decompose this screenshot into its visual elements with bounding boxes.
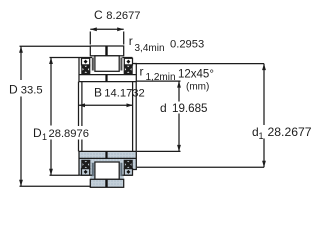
- inner ring lubrication slot: [105, 75, 107, 82]
- bottom outer ring band: [90, 179, 123, 187]
- B arrow right: [127, 103, 134, 107]
- svg-text:r: r: [140, 65, 144, 79]
- svg-text:(mm): (mm): [186, 82, 209, 93]
- right diamond: [126, 60, 130, 64]
- C arrow right: [117, 27, 124, 31]
- svg-text:1: 1: [42, 132, 47, 142]
- B arrow left: [79, 103, 86, 107]
- svg-text:d: d: [160, 101, 167, 115]
- bottom left X: [82, 161, 89, 168]
- svg-text:14.1732: 14.1732: [104, 88, 144, 100]
- left diamond box: [82, 58, 90, 65]
- bottom inner ring lubrication slot: [105, 151, 107, 158]
- svg-text:28.8976: 28.8976: [49, 128, 89, 140]
- svg-text:1,2min: 1,2min: [146, 72, 176, 83]
- seal recess top line left: [79, 57, 92, 59]
- bottom right X: [125, 161, 132, 168]
- bottom outer ring lubrication slot: [105, 180, 107, 188]
- connector line left outer: [78, 82, 80, 152]
- C extension line left: [89, 32, 91, 45]
- svg-text:19.685: 19.685: [172, 102, 207, 115]
- d1 extension line top: [135, 63, 265, 65]
- svg-text:C: C: [94, 8, 103, 22]
- inner ring top edge: [79, 74, 136, 76]
- outer ring lubrication slot: [105, 46, 107, 56]
- roller: [95, 56, 119, 72]
- d extension line top: [137, 80, 181, 82]
- left X-box: [82, 65, 90, 73]
- d1 arrow up: [262, 64, 266, 71]
- seal recess top line right: [122, 57, 132, 59]
- right diamond box: [124, 58, 132, 65]
- inner ring outline top section: [79, 58, 136, 82]
- D1 arrow down: [49, 169, 53, 176]
- bottom inner ring band: [79, 151, 136, 175]
- svg-text:r: r: [129, 34, 133, 48]
- connector line right outer: [135, 82, 137, 152]
- D1 extension line bottom: [50, 174, 80, 176]
- svg-text:D: D: [33, 126, 42, 140]
- bottom seal recess line right: [122, 174, 132, 176]
- svg-text:1: 1: [259, 131, 264, 141]
- left guide bar: [92, 58, 94, 71]
- svg-text:0.2953: 0.2953: [170, 39, 204, 51]
- left diamond: [84, 60, 88, 64]
- d dimension line: [178, 81, 180, 151]
- bottom right guide bar: [120, 163, 122, 176]
- bottom right X-box: [124, 160, 132, 168]
- d extension line bottom: [137, 150, 181, 152]
- B dimension line: [79, 104, 134, 106]
- right X: [125, 66, 132, 73]
- svg-text:28.2677: 28.2677: [268, 125, 312, 139]
- outer ring band: [90, 46, 123, 56]
- D arrow down: [19, 180, 23, 187]
- bottom left diamond: [84, 170, 88, 174]
- bottom silhouette fill: [79, 151, 136, 187]
- svg-text:8.2677: 8.2677: [106, 10, 140, 22]
- d1 dimension line: [263, 64, 265, 168]
- D extension line top: [20, 45, 91, 47]
- D1 arrow up: [49, 58, 53, 65]
- bottom roller: [95, 162, 119, 179]
- bottom right diamond box: [124, 169, 132, 176]
- svg-text:12x45°: 12x45°: [178, 69, 214, 81]
- bottom seal recess line left: [79, 174, 92, 176]
- d1 arrow down: [262, 161, 266, 168]
- C arrow left: [90, 27, 97, 31]
- d arrow down: [177, 145, 181, 152]
- label D1 28.8976: [32, 126, 90, 140]
- d arrow up: [177, 81, 181, 88]
- label D 33.5: [17, 80, 25, 96]
- bottom left diamond box: [82, 169, 90, 176]
- D extension line bottom: [20, 185, 92, 187]
- svg-text:3,4min: 3,4min: [135, 43, 165, 54]
- D arrow up: [19, 46, 23, 53]
- bottom left X-box: [82, 160, 90, 168]
- left X: [82, 66, 89, 73]
- C extension line right: [123, 32, 125, 45]
- svg-text:B: B: [94, 86, 102, 100]
- svg-text:33.5: 33.5: [21, 85, 43, 97]
- D1 extension line top: [50, 57, 80, 59]
- right X-box: [124, 65, 132, 73]
- D dimension line: [20, 46, 22, 186]
- svg-text:D: D: [9, 83, 18, 97]
- connector line right inner: [132, 82, 134, 152]
- right guide bar: [120, 58, 122, 71]
- bottom right diamond: [126, 170, 130, 174]
- bottom left guide bar: [92, 163, 94, 176]
- D1 dimension line: [50, 58, 52, 176]
- d1 extension line bottom: [137, 166, 264, 168]
- C dimension line: [90, 28, 123, 30]
- connector line left inner: [81, 82, 83, 152]
